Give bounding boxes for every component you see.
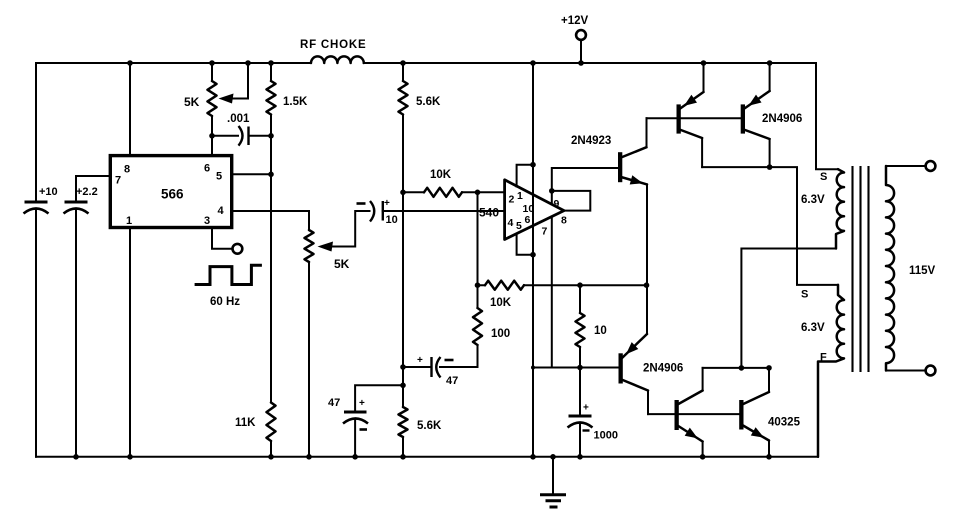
wire: pin 4 to pot: [232, 211, 309, 230]
capacitor +2.2: [65, 201, 88, 204]
wire: +2.2 to ground rail: [75, 209, 77, 457]
svg-text:10: 10: [594, 325, 607, 337]
wire: main center vertical: [402, 115, 404, 408]
svg-text:10K: 10K: [490, 297, 512, 309]
wire: Q4 emitter up: [646, 285, 648, 334]
wire: pin 9 to driver base: [552, 168, 618, 204]
wire: pin 3 to terminal: [212, 228, 232, 249]
wire: Q3 emitter to rail: [769, 63, 771, 91]
wire: Q6 collector up: [768, 368, 770, 392]
capacitor 47 coupling: [403, 366, 430, 368]
wire: pin 6: [211, 136, 213, 156]
svg-text:2: 2: [509, 194, 515, 206]
wire: Q1 collector up: [646, 118, 648, 147]
wire: Q5 emitter to ground: [702, 442, 704, 457]
terminal output top: [926, 161, 936, 171]
svg-text:.001: .001: [227, 113, 250, 125]
svg-text:2N4923: 2N4923: [571, 135, 611, 147]
svg-text:115V: 115V: [909, 265, 936, 277]
potentiometer 5K bottom: [305, 230, 314, 262]
resistor 5.6K top: [399, 81, 408, 115]
wire: Q6 emitter to ground: [768, 441, 770, 457]
transformer primary winding 1 6.3V: [836, 169, 844, 248]
wire: Q2 emitter to rail: [703, 63, 705, 92]
svg-text:6.3V: 6.3V: [801, 322, 825, 334]
wire: Q3 collector down: [769, 139, 771, 167]
svg-text:6: 6: [204, 163, 210, 175]
junction dots on top rail: [127, 60, 133, 66]
svg-text:5: 5: [516, 220, 522, 232]
svg-text:6: 6: [525, 214, 531, 226]
svg-text:+: +: [417, 355, 423, 366]
capacitor .001: [212, 135, 271, 137]
svg-text:566: 566: [161, 187, 184, 202]
waveform symbol 60 Hz: [195, 265, 262, 284]
svg-text:+: +: [359, 398, 365, 409]
svg-text:6.3V: 6.3V: [801, 194, 825, 206]
wire: 5.6K top branch: [402, 63, 404, 81]
svg-text:5.6K: 5.6K: [416, 96, 441, 108]
svg-text:2N4906: 2N4906: [762, 113, 802, 125]
svg-text:1: 1: [517, 190, 523, 202]
wire: Q5 collector up: [702, 368, 704, 391]
svg-text:5K: 5K: [184, 95, 200, 109]
resistor 10: [579, 285, 581, 367]
svg-text:10K: 10K: [430, 169, 452, 181]
junction dots on ground rail: [73, 454, 79, 460]
wire: pin 1 to ground rail: [129, 228, 131, 457]
terminal +12V: [576, 30, 586, 40]
wire: base drive horizontal: [533, 367, 619, 369]
transformer primary winding 2 6.3V: [818, 285, 844, 457]
wire: winding1 bottom to output transistors: [741, 249, 836, 368]
svg-text:RF CHOKE: RF CHOKE: [300, 39, 366, 51]
svg-text:100: 100: [491, 328, 510, 340]
capacitor 47 bypass: [344, 411, 367, 414]
svg-text:40325: 40325: [768, 417, 801, 429]
wire: secondary top lead: [886, 165, 926, 167]
IC U1 566: [110, 156, 231, 228]
wire: op-amp V+ stub: [517, 165, 533, 187]
svg-text:4: 4: [218, 205, 225, 217]
wire: pin 7 down: [551, 217, 553, 368]
svg-text:+: +: [384, 198, 390, 209]
wire: 5K wiper to cap: [332, 211, 370, 247]
svg-text:11K: 11K: [235, 417, 256, 429]
svg-text:60 Hz: 60 Hz: [210, 296, 240, 308]
wire: op-amp V- stub: [517, 234, 533, 255]
resistor 100: [448, 285, 478, 367]
svg-text:47: 47: [446, 375, 458, 387]
svg-text:8: 8: [561, 215, 567, 227]
svg-text:540: 540: [479, 206, 499, 220]
wire: 10 to 1000 cap: [579, 368, 581, 415]
potentiometer 5K top: [208, 81, 217, 116]
wire: 1.5K node down to 11K: [270, 174, 272, 402]
svg-text:3: 3: [204, 215, 210, 227]
resistor 10K feedback: [478, 284, 647, 286]
wire: Q4 collector to bases: [647, 391, 649, 415]
terminal pin3 output: [233, 244, 243, 254]
svg-text:10: 10: [386, 214, 398, 226]
ground: [552, 457, 554, 494]
wire: +12V top rail: [36, 62, 816, 64]
svg-text:1000: 1000: [594, 430, 618, 442]
transistor Q4 2N4906 (lower PNP): [619, 353, 623, 383]
transformer secondary 115V: [886, 166, 894, 371]
resistor 11K: [267, 403, 276, 442]
wire: +12V to ground vertical: [532, 63, 534, 457]
transformer core: [853, 166, 869, 372]
wire: output pair base rail: [648, 413, 739, 415]
inductor RF CHOKE: [311, 56, 364, 63]
capacitor +10: [25, 201, 48, 204]
svg-text:+2.2: +2.2: [76, 186, 98, 198]
transistor Q3 2N4906 (upper right PNP): [741, 104, 745, 133]
svg-text:7: 7: [115, 175, 121, 187]
wire: secondary bottom lead: [886, 370, 926, 372]
resistor 1.5K: [267, 81, 276, 115]
svg-text:1.5K: 1.5K: [283, 96, 308, 108]
svg-text:+10: +10: [39, 186, 58, 198]
wire: cap to op-amp input: [383, 210, 505, 212]
wire: pin 5 to 1.5K: [232, 173, 271, 175]
wire: left frame bottom: [35, 209, 37, 457]
svg-text:5K: 5K: [334, 257, 350, 271]
wire: pin 8 supply: [129, 63, 131, 156]
svg-text:7: 7: [542, 226, 548, 238]
wire: output loop pins 8-9: [552, 191, 591, 211]
transistor Q2 (upper driver PNP): [677, 104, 681, 133]
svg-text:+12V: +12V: [561, 15, 589, 27]
svg-text:1: 1: [126, 215, 132, 227]
transistor Q1 2N4923: [618, 152, 622, 182]
wire: Q2 collector down: [701, 138, 703, 167]
wire: 47uF branch: [355, 385, 403, 410]
svg-text:2N4906: 2N4906: [643, 363, 683, 375]
resistor 10K input: [403, 191, 505, 193]
wire: top rail to upper winding: [816, 63, 838, 169]
capacitor 10uF coupling: [370, 201, 374, 222]
capacitor 1000: [569, 415, 592, 418]
svg-text:S: S: [820, 171, 827, 183]
svg-text:47: 47: [328, 397, 340, 409]
svg-text:F: F: [820, 352, 827, 364]
svg-text:+: +: [583, 403, 589, 414]
svg-text:5: 5: [216, 171, 222, 183]
transistor Q5 (output NPN): [675, 400, 679, 430]
op-amp U2 540: [505, 180, 564, 240]
terminal output bottom: [926, 366, 936, 376]
svg-text:9: 9: [554, 198, 560, 210]
wire: driver pair base rail: [647, 117, 741, 119]
wire: ground rail: [36, 456, 818, 458]
wire: pin7 branch: [76, 176, 110, 201]
transistor Q6 40325 (output NPN): [739, 400, 743, 430]
svg-text:S: S: [801, 289, 808, 301]
wire: Q1 emitter down: [646, 184, 648, 285]
svg-text:8: 8: [124, 164, 130, 176]
resistor 5.6K bottom: [399, 407, 408, 437]
wire: feedback vertical: [477, 192, 479, 285]
svg-text:4: 4: [508, 217, 514, 229]
wire: left frame top: [35, 63, 37, 201]
svg-text:5.6K: 5.6K: [417, 420, 442, 432]
wire: collector rail to winding1: [703, 367, 769, 369]
wire: collectors to lower winding: [702, 167, 838, 285]
wire: 5K wiper to rail: [233, 63, 248, 99]
